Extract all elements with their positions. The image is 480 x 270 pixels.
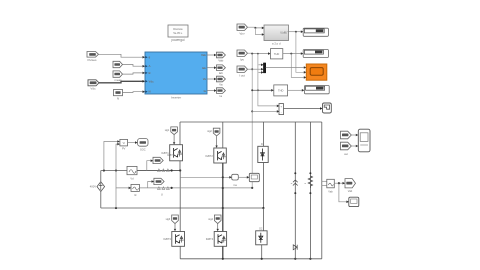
svg-text:out: out bbox=[344, 152, 348, 156]
load branch L2 (series RLC) bbox=[305, 172, 313, 194]
svg-text:SOC: SOC bbox=[140, 148, 146, 152]
wire VM2 out long bbox=[139, 187, 252, 189]
svg-text:I out: I out bbox=[239, 74, 245, 78]
node n3 bbox=[295, 31, 297, 33]
svg-text:5e-05 s.: 5e-05 s. bbox=[173, 31, 183, 35]
svg-text:U(dB): U(dB) bbox=[280, 31, 287, 35]
node a2 bbox=[115, 169, 117, 171]
wire out4 bbox=[207, 90, 214, 92]
transistor Q3 (IGBT/Diode) bbox=[163, 232, 184, 247]
node n5 bbox=[251, 89, 253, 91]
svg-text:IGBT4: IGBT4 bbox=[206, 237, 214, 241]
wire Q3 emitter bbox=[179, 246, 181, 258]
svg-text:PV: PV bbox=[122, 147, 126, 151]
node n2 bbox=[251, 53, 253, 55]
transistor Q1 (IGBT/Diode) bbox=[161, 145, 182, 161]
wire N to subsystem bbox=[123, 91, 143, 94]
svg-text:Vd: Vd bbox=[130, 177, 134, 181]
display D3 bbox=[304, 86, 329, 94]
load branch L1 (series RLC) bbox=[291, 172, 298, 194]
gate tag G4 bbox=[208, 215, 221, 224]
measurement block VI1 bbox=[120, 139, 128, 150]
node a5 bbox=[262, 207, 264, 209]
wire VI1 to goto bbox=[128, 142, 136, 144]
rate block R1 bbox=[232, 174, 239, 187]
output port Out3 bbox=[217, 76, 226, 86]
wire D1 down to mid rail bbox=[262, 163, 264, 209]
wire tap to VM2 bbox=[116, 171, 129, 188]
node d1 bbox=[222, 258, 224, 260]
wire In1 to subsystem bbox=[99, 54, 143, 57]
wire V1 vertical bbox=[100, 171, 102, 182]
wire out3 bbox=[207, 78, 214, 80]
node d3 bbox=[294, 258, 296, 260]
node n1 bbox=[254, 27, 256, 29]
wire bottom rail bbox=[180, 258, 322, 260]
wire B1 to display D1 bbox=[288, 31, 302, 33]
svg-text:N: N bbox=[149, 90, 151, 94]
svg-text:Vab: Vab bbox=[218, 59, 223, 63]
svg-text:B: B bbox=[149, 71, 151, 75]
node a3 bbox=[115, 207, 117, 209]
output port Out1 bbox=[217, 52, 226, 62]
svg-text:a 2 p d: a 2 p d bbox=[272, 41, 281, 45]
wire elbow to goto CA2 bbox=[148, 182, 152, 188]
input port P3 (Vdc) bbox=[237, 66, 248, 78]
input port In2 bbox=[88, 80, 99, 91]
svg-text:sig4: sig4 bbox=[208, 218, 213, 221]
scope S4 bbox=[349, 197, 359, 206]
node n4 bbox=[290, 53, 292, 55]
wire vertical A bbox=[255, 28, 262, 35]
diode D2 bbox=[256, 227, 267, 245]
From tag F2 bbox=[113, 71, 123, 82]
svg-text:IGBT1: IGBT1 bbox=[167, 154, 175, 157]
THD block U2 bbox=[271, 49, 283, 59]
svg-text:400V: 400V bbox=[90, 185, 96, 189]
svg-text:Vdc: Vdc bbox=[90, 86, 96, 90]
wire VM3 out bbox=[334, 182, 342, 184]
svg-text:Ia: Ia bbox=[220, 94, 223, 98]
wire drop to Q2 collector bbox=[222, 122, 224, 148]
demux marks row2 bbox=[158, 187, 170, 190]
From tag F3 bbox=[341, 131, 352, 139]
svg-text:Discrete: Discrete bbox=[173, 27, 183, 31]
wire dc top bbox=[101, 170, 181, 172]
display D2 bbox=[303, 50, 328, 58]
output port Out4 bbox=[217, 88, 226, 98]
subsystem U1 (blue) bbox=[145, 52, 207, 100]
svg-text:Va: Va bbox=[203, 77, 207, 81]
wire G1 to Q1 gate bbox=[173, 135, 175, 143]
svg-text:Iab: Iab bbox=[202, 66, 206, 70]
svg-text:A: A bbox=[149, 64, 151, 68]
wire G3 to Q3 bbox=[174, 224, 176, 229]
wire P3 to mux M1 bbox=[248, 68, 262, 70]
gate tag G2 bbox=[207, 128, 220, 136]
wire F4 to scope S5 bbox=[352, 145, 357, 147]
goto tag Vab bbox=[345, 179, 356, 193]
node b5 bbox=[222, 187, 224, 189]
wire to sum M2 in1 bbox=[258, 54, 277, 106]
voltage measurement VM3 bbox=[322, 179, 335, 193]
demux marks row1 bbox=[158, 169, 170, 172]
svg-text:sig1: sig1 bbox=[165, 129, 170, 132]
svg-text:Vab: Vab bbox=[328, 190, 333, 194]
THD block U3 bbox=[274, 85, 288, 96]
svg-text:-: - bbox=[281, 111, 282, 115]
wire F2 to subsystem bbox=[123, 73, 143, 74]
wire sensor taps bbox=[104, 142, 118, 171]
transistor Q2 (IGBT/Diode) bbox=[205, 148, 226, 163]
gate tag G1 bbox=[165, 127, 178, 135]
wire out1 bbox=[207, 54, 214, 56]
svg-text:sig3: sig3 bbox=[166, 218, 171, 221]
wire leg A vertical bbox=[179, 171, 181, 232]
svg-text:Vab: Vab bbox=[348, 189, 353, 193]
wire into THD2 bbox=[252, 89, 271, 91]
DC source V1 bbox=[90, 182, 105, 192]
wire Q1 emitter bbox=[179, 161, 181, 171]
svg-text:VI: VI bbox=[123, 142, 126, 145]
input port P1 (Vab) bbox=[237, 24, 248, 36]
svg-text:Vab: Vab bbox=[201, 53, 206, 57]
From tag F1 bbox=[113, 61, 123, 67]
scope S5 bbox=[358, 129, 370, 152]
svg-text:powergui: powergui bbox=[172, 38, 185, 42]
node a4 bbox=[222, 207, 224, 209]
scope S6 bbox=[249, 173, 259, 181]
node d4 bbox=[309, 258, 311, 260]
node b3 bbox=[171, 187, 173, 189]
wire M2 to scope S2 bbox=[284, 108, 321, 110]
svg-text:Inverter: Inverter bbox=[171, 96, 181, 100]
svg-text:IGBT3: IGBT3 bbox=[163, 237, 171, 241]
input port P2 (Iab) bbox=[237, 50, 248, 62]
goto tag CA2 bbox=[154, 178, 164, 196]
display D1 bbox=[303, 28, 328, 36]
wire vertical B bbox=[251, 54, 253, 188]
wire elbow to goto CA1 bbox=[147, 161, 151, 171]
svg-text:U: U bbox=[161, 193, 163, 197]
wire vertical D to scope S1 in3 bbox=[291, 54, 304, 78]
wire D2 bottom bbox=[261, 245, 263, 259]
node n6 bbox=[257, 89, 259, 91]
wire G4 to Q4 bbox=[217, 224, 219, 229]
node d2 bbox=[261, 258, 263, 260]
wire load rail 1 bbox=[294, 122, 296, 259]
svg-text:Va: Va bbox=[219, 83, 223, 87]
measurement block VM1 bbox=[127, 166, 137, 180]
wire D2 top bbox=[262, 208, 264, 231]
svg-text:THD: THD bbox=[278, 89, 283, 93]
svg-text:Iab: Iab bbox=[219, 71, 224, 75]
diode D3 on rail1 bbox=[293, 245, 297, 250]
svg-text:g: g bbox=[149, 55, 151, 59]
measurement block VM2 bbox=[131, 184, 139, 196]
svg-text:+: + bbox=[280, 105, 282, 109]
svg-text:IGBT2: IGBT2 bbox=[205, 154, 213, 158]
wire out2 bbox=[207, 67, 214, 69]
wire leg B vertical bbox=[222, 163, 224, 259]
node c1 bbox=[222, 176, 224, 178]
wire top rail bbox=[180, 121, 322, 123]
wire M1 to scope S1 bbox=[266, 67, 304, 69]
svg-text:ma: ma bbox=[233, 184, 237, 187]
svg-text:Ipv: Ipv bbox=[240, 58, 245, 62]
input port In1 bbox=[87, 52, 99, 63]
wire drop to D1 bbox=[262, 122, 264, 146]
svg-text:THD: THD bbox=[274, 52, 279, 56]
wire mux in3 bbox=[259, 71, 262, 73]
From tag F4 bbox=[341, 142, 352, 156]
wire P1 to abc block bbox=[248, 26, 263, 29]
node b4 bbox=[251, 187, 253, 189]
node e1 bbox=[338, 182, 340, 184]
wire load rail 2 bbox=[309, 122, 311, 259]
svg-text:Vdc: Vdc bbox=[149, 79, 155, 83]
gate tag G3 bbox=[166, 215, 179, 224]
wire G2 to Q2 gate bbox=[216, 136, 218, 146]
wire F1 to subsystem bbox=[123, 65, 143, 67]
wire load rail 3 bbox=[321, 122, 323, 259]
wire mid rail bbox=[101, 207, 264, 209]
scope S1 (orange) bbox=[306, 64, 327, 80]
wire F3 to scope S5 bbox=[352, 134, 357, 136]
svg-text:Pulses: Pulses bbox=[87, 58, 97, 62]
wire vertical C to scope S1 in2 bbox=[296, 32, 304, 73]
constant N bbox=[114, 90, 123, 101]
node b1 bbox=[171, 169, 173, 171]
node b2 bbox=[179, 169, 181, 171]
wire THD1 to display D2 bbox=[283, 53, 301, 55]
node a1 bbox=[103, 169, 105, 171]
svg-text:Vpv: Vpv bbox=[239, 32, 245, 36]
transistor Q4 (IGBT/Diode) bbox=[206, 232, 227, 247]
wire down to scope S4 bbox=[339, 183, 347, 202]
wire THD2 to display D3 bbox=[288, 89, 302, 91]
wire R1 to scope S6 bbox=[238, 176, 247, 178]
output port Out2 bbox=[217, 65, 226, 75]
wire drop to Q1 collector bbox=[179, 122, 181, 145]
svg-text:N: N bbox=[117, 97, 119, 101]
mux M1 bbox=[263, 63, 265, 73]
scope S2 bbox=[323, 103, 332, 113]
wire P2 to THD1 bbox=[248, 52, 269, 54]
goto tag SOC bbox=[138, 139, 148, 152]
wire mux in1 bbox=[259, 64, 262, 66]
powergui block bbox=[168, 25, 188, 42]
abc measurement block B1 bbox=[264, 25, 289, 45]
wire VM1 out bbox=[137, 170, 180, 172]
svg-text:sig2: sig2 bbox=[207, 130, 212, 133]
mux M2 bbox=[279, 104, 284, 115]
wire phase tap bbox=[180, 176, 229, 178]
goto tag CA1 bbox=[153, 154, 175, 164]
wire In2 to subsystem (bold) bbox=[99, 81, 143, 83]
diode D1 bbox=[258, 143, 268, 163]
